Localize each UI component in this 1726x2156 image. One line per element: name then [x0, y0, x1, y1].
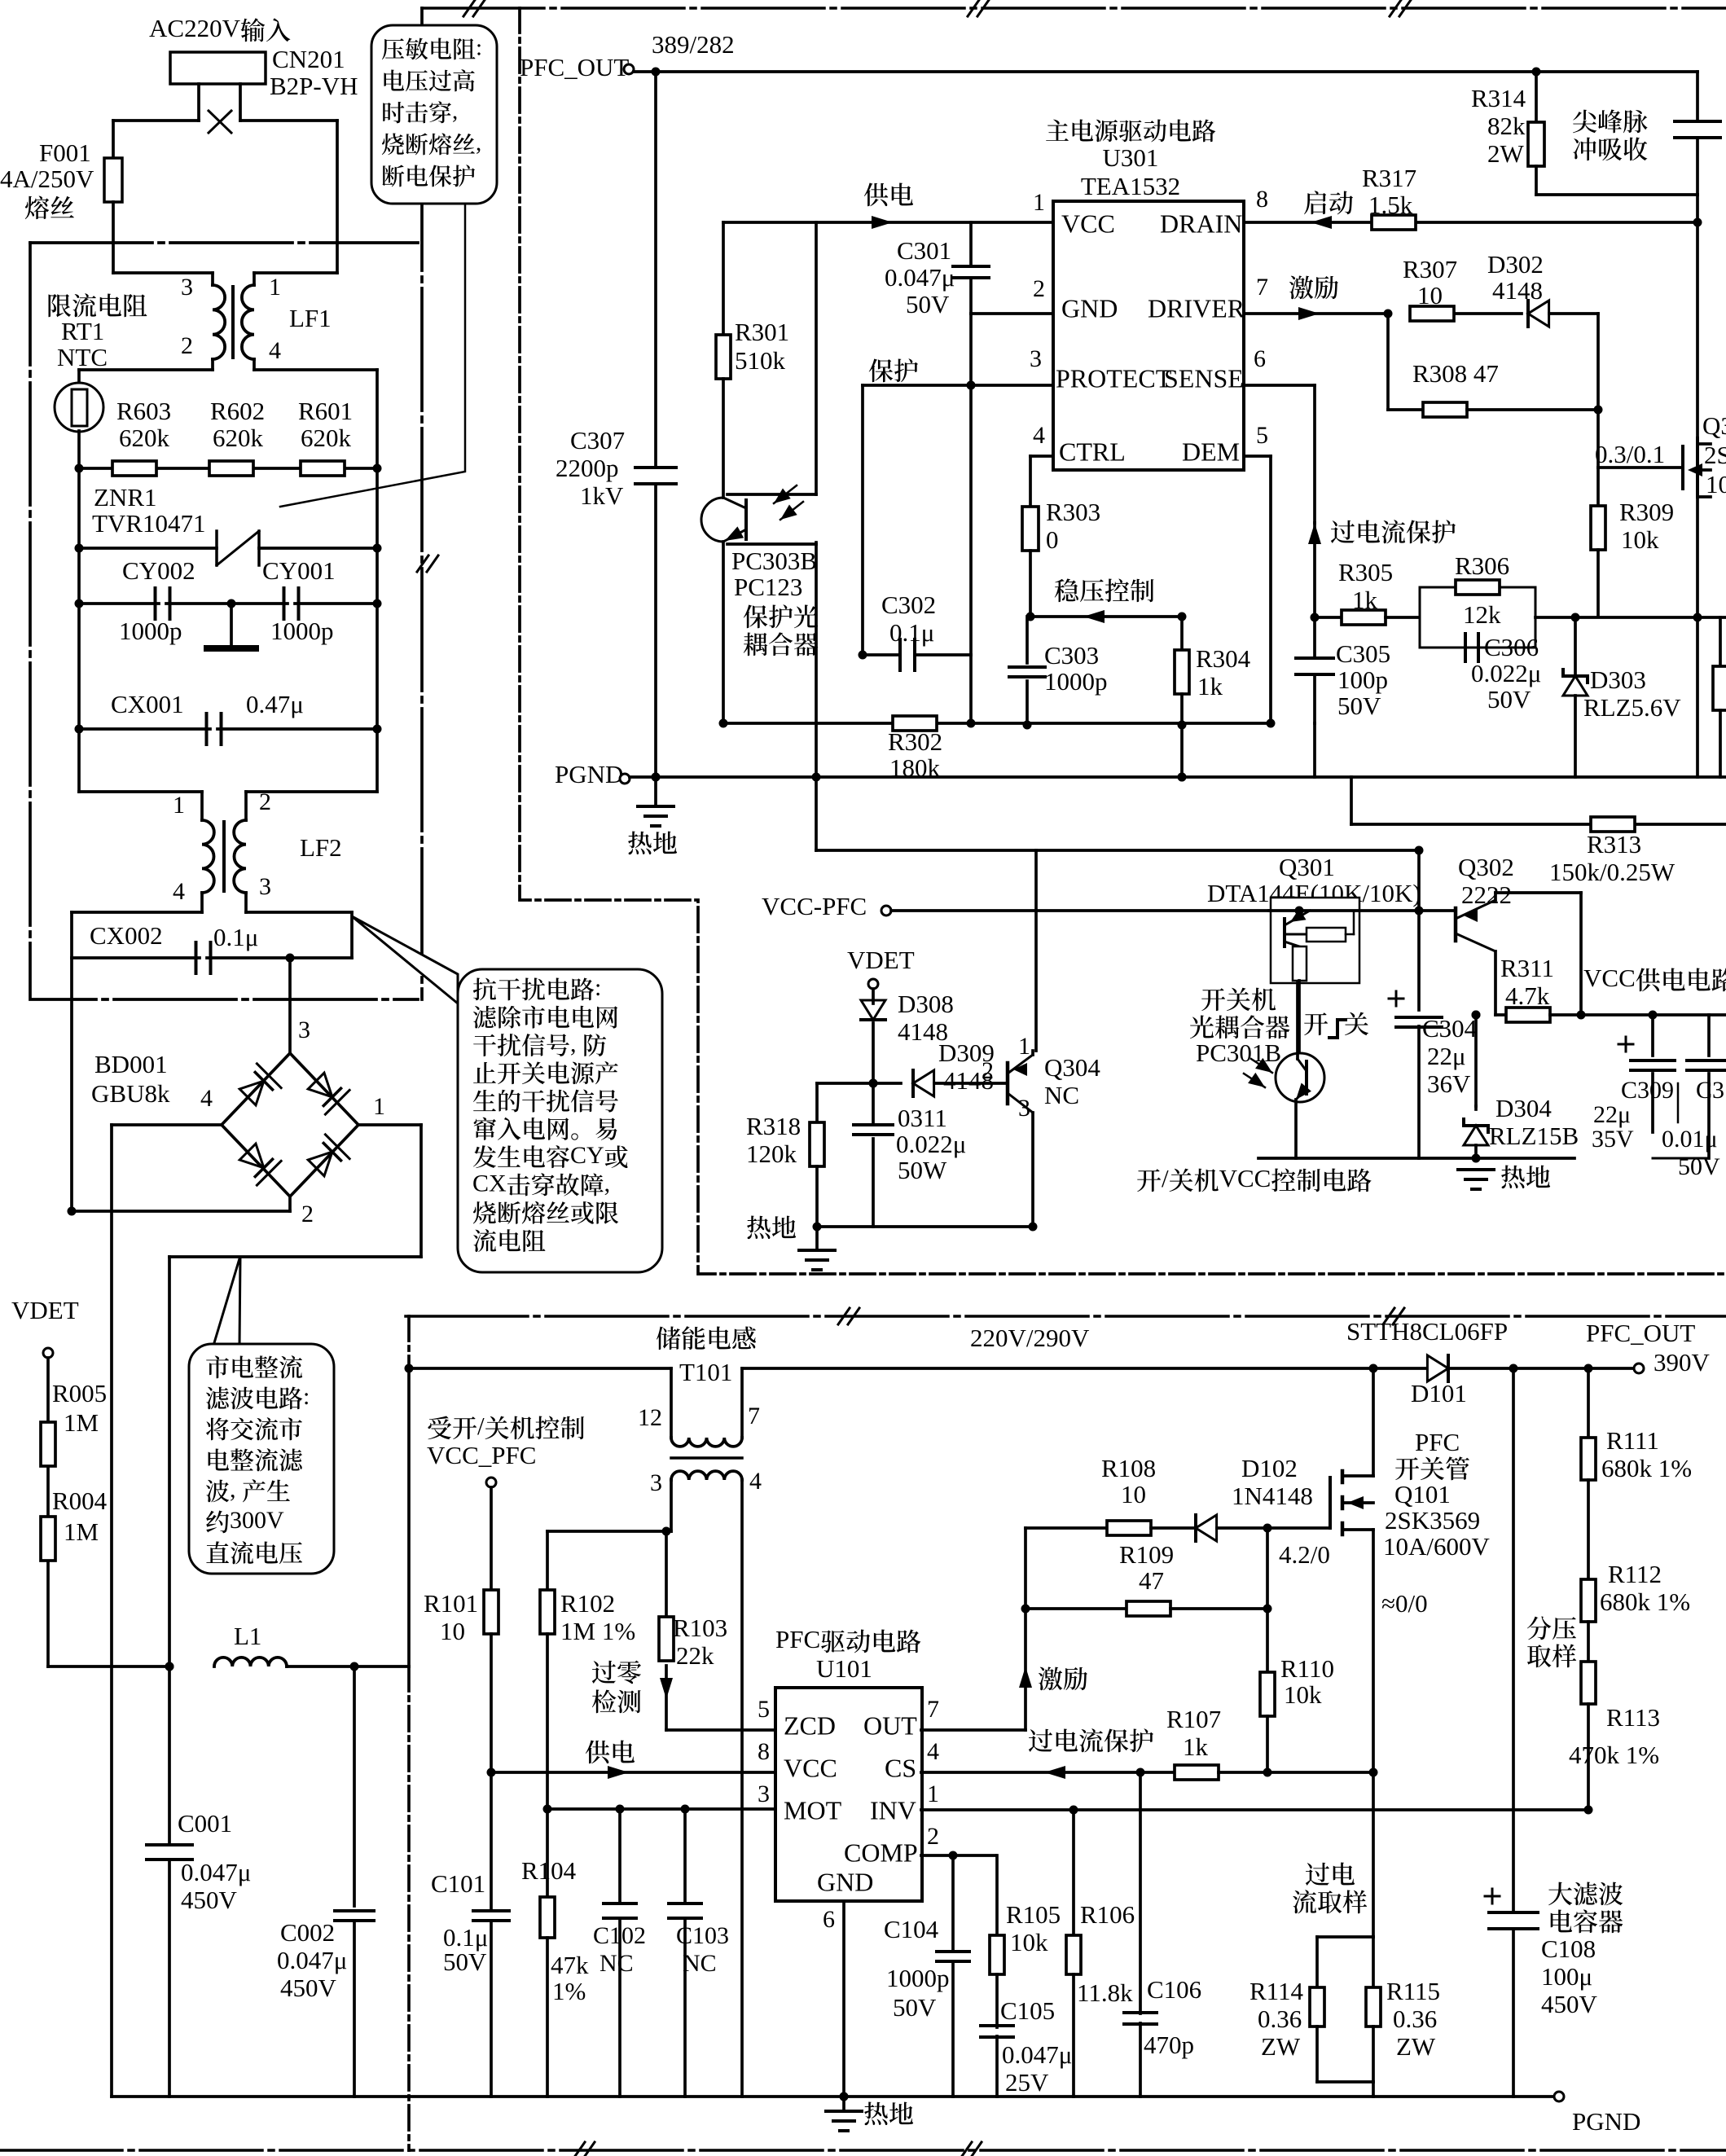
- svg-text:1000p: 1000p: [886, 1964, 950, 1992]
- svg-text:PGND: PGND: [555, 760, 623, 788]
- resistor R318 120k: [815, 1083, 819, 1122]
- resistor R305 1k: [1315, 616, 1342, 619]
- svg-text:0.36: 0.36: [1258, 2005, 1302, 2033]
- svg-text:Q304: Q304: [1044, 1053, 1100, 1082]
- svg-text:R004: R004: [52, 1486, 108, 1515]
- wire: R110 column: [1266, 1528, 1269, 1672]
- svg-text:82k: 82k: [1487, 112, 1526, 140]
- transistor Q303 MOSFET (partially cut): [1681, 446, 1684, 489]
- svg-text:PC303B: PC303B: [731, 547, 817, 575]
- wire: hot-section left border dash-dot: [520, 8, 1726, 1274]
- wire: resistor row R603-R601: [79, 467, 112, 470]
- svg-text:VCC: VCC: [1219, 1164, 1271, 1192]
- svg-text:R107: R107: [1166, 1705, 1221, 1733]
- label divider sample: [1527, 1616, 1551, 1640]
- capacitor C309 22u 35V: [1651, 1015, 1654, 1056]
- resistor R102 1M 1%: [540, 1590, 555, 1634]
- svg-text:CS: CS: [885, 1754, 916, 1783]
- svg-text:D303: D303: [1590, 665, 1646, 694]
- transformer T101: [670, 1368, 673, 1438]
- svg-text:C302: C302: [881, 591, 936, 619]
- wire: snubber bottom: [1536, 193, 1697, 196]
- wire: DRIVER pin7: [1244, 312, 1388, 315]
- resistor R105 10k: [995, 1855, 999, 1935]
- wire: bridge pin2 to L line: [288, 1197, 292, 1211]
- svg-text:C106: C106: [1147, 1975, 1201, 2004]
- diode D309 4148: [913, 1070, 934, 1096]
- label storage inductor T101: [657, 1327, 681, 1350]
- svg-text:5: 5: [758, 1696, 770, 1723]
- resistor R311 4.7k: [1495, 1013, 1506, 1017]
- svg-text:2W: 2W: [1487, 139, 1525, 168]
- resistor R601 620k: [301, 461, 345, 476]
- svg-text:10: 10: [1417, 281, 1443, 310]
- svg-text:NC: NC: [599, 1950, 634, 1977]
- terminal PGND bottom: [1554, 2092, 1564, 2101]
- svg-text:DRAIN: DRAIN: [1160, 209, 1242, 239]
- svg-text:2: 2: [927, 1823, 939, 1850]
- svg-text:R304: R304: [1196, 644, 1251, 673]
- svg-text:GND: GND: [817, 1868, 873, 1897]
- svg-text:4.2/0: 4.2/0: [1279, 1540, 1330, 1569]
- svg-text:12k: 12k: [1463, 600, 1501, 629]
- svg-text:C104: C104: [884, 1915, 939, 1943]
- resistor R304 1k: [1180, 617, 1184, 650]
- capacitor CY002 1000p: [79, 602, 159, 605]
- svg-text:≈0/0: ≈0/0: [1381, 1589, 1428, 1618]
- svg-text:5: 5: [1256, 422, 1268, 449]
- wire: VCC rail out: [1581, 1013, 1726, 1017]
- callout: anti-interference note: [458, 969, 662, 1272]
- svg-text:Q301: Q301: [1279, 853, 1335, 881]
- svg-text:GBU8k: GBU8k: [91, 1079, 170, 1108]
- wire: R306 out to zener node: [1535, 616, 1726, 619]
- wire: rectified rail to PFC: [407, 1368, 411, 1666]
- label regulation control: [1055, 578, 1078, 602]
- svg-text:1: 1: [1033, 189, 1045, 216]
- wire: top section border (dash-dot): [422, 7, 1726, 10]
- svg-text:R104: R104: [521, 1856, 577, 1885]
- svg-text:ZCD: ZCD: [784, 1711, 836, 1741]
- wire: INV pin1: [921, 1808, 1588, 1811]
- svg-text:ZW: ZW: [1396, 2032, 1436, 2061]
- capacitor C305 100p 50V: [1313, 617, 1316, 658]
- capacitor C304 22u 36V electrolytic: [1417, 911, 1421, 1010]
- resistor R103 22k: [665, 1531, 668, 1617]
- svg-text:50V: 50V: [443, 1947, 487, 1976]
- svg-text:470p: 470p: [1144, 2031, 1194, 2059]
- wire: C307/PGND column: [654, 72, 657, 468]
- svg-text:ZNR1: ZNR1: [94, 483, 157, 512]
- wire: twisted-pair mark: [209, 111, 231, 133]
- svg-text:D308: D308: [898, 990, 954, 1018]
- svg-text:510k: 510k: [735, 346, 786, 375]
- svg-text:RLZ15B: RLZ15B: [1489, 1122, 1579, 1150]
- resistor R309 10k: [1596, 468, 1600, 506]
- svg-text:0.047μ: 0.047μ: [885, 263, 955, 292]
- capacitor C307 2200p 1kV: [635, 466, 676, 469]
- label drive: [1289, 276, 1313, 300]
- svg-text:R302: R302: [888, 727, 942, 756]
- svg-text:0311: 0311: [898, 1104, 947, 1132]
- svg-text:VCC-PFC: VCC-PFC: [762, 892, 867, 920]
- svg-text:PFC_OUT: PFC_OUT: [1586, 1319, 1695, 1347]
- wire: VCC pin8: [490, 1634, 493, 1772]
- label U301 header: [1046, 120, 1069, 141]
- resistor R314 82k 2W snubber: [1535, 72, 1538, 122]
- resistor R104 47k 1%: [546, 1809, 549, 1897]
- svg-text:PC123: PC123: [734, 573, 802, 601]
- connector CN201: [170, 52, 266, 84]
- resistor R307 10: [1410, 306, 1454, 321]
- capacitor C102 NC: [618, 1809, 621, 1903]
- svg-text:1000p: 1000p: [270, 617, 334, 645]
- label overcurrent protect: [1308, 523, 1321, 544]
- svg-text:3: 3: [650, 1469, 662, 1496]
- svg-text:3: 3: [298, 1017, 310, 1043]
- resistor R301 510k: [722, 222, 725, 335]
- wire: callout tail 2: [213, 1256, 240, 1346]
- svg-text:CY: CY: [570, 1142, 604, 1169]
- svg-text:R305: R305: [1338, 558, 1393, 586]
- svg-text:4148: 4148: [1492, 276, 1543, 305]
- svg-text:R603: R603: [116, 397, 171, 425]
- svg-text:470k 1%: 470k 1%: [1569, 1741, 1659, 1769]
- node: L1 input junction: [165, 1662, 174, 1671]
- ground: VCC control ground: [1458, 1168, 1494, 1171]
- svg-text:R005: R005: [52, 1379, 107, 1407]
- svg-text:100μ: 100μ: [1541, 1962, 1592, 1991]
- resistor R004 1M: [41, 1517, 55, 1561]
- svg-text:COMP: COMP: [844, 1838, 918, 1868]
- thermistor RT1: [55, 383, 103, 432]
- wire: Q302 collector to VCC out: [1494, 893, 1497, 900]
- svg-text:INV: INV: [870, 1796, 916, 1825]
- svg-text:CX: CX: [472, 1170, 507, 1197]
- label protect: [869, 359, 894, 383]
- svg-text:8: 8: [758, 1738, 770, 1765]
- svg-text:C307: C307: [570, 426, 625, 454]
- label on/off optocoupler: [1201, 988, 1225, 1011]
- svg-text:ZW: ZW: [1261, 2032, 1301, 2061]
- resistor R306 12k with C306: [1420, 587, 1535, 648]
- capacitor C002 0.047u 450V: [335, 1909, 374, 1912]
- svg-text:1k: 1k: [1352, 586, 1378, 614]
- wire: D308 to D309: [817, 1082, 873, 1085]
- wire: section border between VCC control and PFC (dash-dot): [406, 1315, 1726, 1318]
- svg-text:VDET: VDET: [11, 1296, 79, 1324]
- svg-text:220V/290V: 220V/290V: [970, 1324, 1090, 1352]
- label on/off VCC control circuit: [1137, 1169, 1161, 1192]
- svg-text:C105: C105: [1000, 1996, 1055, 2025]
- wire: PROTECT pin3: [863, 384, 1053, 387]
- svg-text:C102: C102: [593, 1922, 646, 1949]
- svg-text:1M: 1M: [64, 1517, 99, 1546]
- wire: regulation wire: [1030, 615, 1182, 618]
- resistor R109 47: [1127, 1601, 1170, 1616]
- svg-text:,: ,: [476, 130, 481, 156]
- wire: Q304 collector drop: [1034, 850, 1038, 1051]
- svg-text::: :: [303, 1383, 310, 1410]
- svg-text:R114: R114: [1249, 1977, 1304, 2005]
- capacitor C101 0.1u 50V: [490, 1772, 493, 1911]
- svg-text:120k: 120k: [746, 1139, 797, 1168]
- ground: U101 hot ground: [842, 1901, 845, 2097]
- ground: hot ground at PGND: [654, 777, 657, 806]
- wire: opto collector rail: [815, 222, 818, 494]
- svg-text:R317: R317: [1362, 164, 1416, 192]
- svg-text:4: 4: [173, 878, 185, 905]
- svg-text:4: 4: [749, 1468, 762, 1495]
- svg-text:2SK3569: 2SK3569: [1385, 1506, 1480, 1535]
- svg-text:50V: 50V: [893, 1993, 937, 2022]
- svg-text:0.01μ: 0.01μ: [1662, 1126, 1718, 1153]
- svg-text:10k: 10k: [1621, 525, 1659, 554]
- svg-text::: :: [476, 34, 482, 60]
- svg-text:25V: 25V: [1005, 2068, 1049, 2097]
- wire: VCC control ground rail: [1258, 1157, 1574, 1160]
- label drive arrow: [1019, 1666, 1032, 1688]
- svg-text:6: 6: [823, 1906, 835, 1933]
- svg-text:CY002: CY002: [122, 556, 195, 585]
- label zero-cross detect: [592, 1661, 616, 1684]
- svg-text:OUT: OUT: [863, 1711, 917, 1741]
- wire: gate feed: [1596, 314, 1600, 468]
- svg-text:0.1μ: 0.1μ: [213, 923, 258, 951]
- svg-text:50V: 50V: [1678, 1153, 1720, 1180]
- svg-text:R113: R113: [1606, 1703, 1660, 1732]
- wire: LF2 pin4 loop: [200, 893, 204, 912]
- varistor ZNR1: [79, 547, 217, 550]
- svg-text:DRIVER: DRIVER: [1148, 294, 1245, 323]
- svg-text:R109: R109: [1119, 1540, 1174, 1569]
- svg-text:VDET: VDET: [847, 946, 915, 974]
- transistor Q301 internals: [1283, 919, 1286, 946]
- label on/off waveform: [1304, 1012, 1328, 1035]
- zener diode D303 RLZ5.6V: [1574, 617, 1577, 676]
- resistor R603 620k: [112, 461, 156, 476]
- svg-text:3: 3: [259, 873, 271, 900]
- capacitor 0311 0.022u 50W: [872, 1083, 875, 1122]
- svg-text:2: 2: [982, 1057, 994, 1084]
- svg-text:22k: 22k: [676, 1641, 714, 1670]
- svg-text:10A/600V: 10A/600V: [1383, 1532, 1491, 1561]
- svg-text:VCC: VCC: [1061, 209, 1115, 239]
- resistor R114/R115 0.36 sense pair: [1317, 1935, 1373, 1939]
- capacitor C306 0.022u 50V: [1464, 634, 1467, 661]
- wire: R313 line: [1350, 777, 1353, 824]
- resistor R108 10: [1107, 1521, 1151, 1535]
- svg-text:390V: 390V: [1654, 1348, 1711, 1377]
- label startup: [1304, 191, 1326, 214]
- capacitor C001 0.047u 450V: [168, 1666, 171, 1845]
- svg-text:50V: 50V: [1487, 685, 1531, 714]
- svg-text:,: ,: [604, 1170, 611, 1197]
- svg-text:C108: C108: [1541, 1934, 1596, 1963]
- capacitor CX001 0.47u: [79, 727, 210, 731]
- svg-text:,: ,: [230, 1476, 236, 1503]
- wire: AC line left to fuse: [113, 119, 199, 122]
- capacitor snubber cap: [1696, 72, 1699, 121]
- wire: PFC section left border dash-dot: [407, 1316, 411, 1368]
- wire: RT1 to resistor row: [77, 431, 81, 468]
- svg-text:NTC: NTC: [57, 343, 108, 371]
- label VCC_PFC control: [428, 1416, 451, 1440]
- wire: T101 pin3 aux: [547, 1530, 671, 1533]
- svg-text:6: 6: [1254, 345, 1266, 372]
- label overcurrent protect CS: [1029, 1729, 1052, 1752]
- svg-text:LF1: LF1: [289, 304, 332, 332]
- svg-text:450V: 450V: [181, 1886, 238, 1914]
- wire: VDET divider: [46, 1358, 50, 1422]
- wire: right EMI rail: [376, 468, 379, 792]
- svg-text:Q101: Q101: [1394, 1480, 1451, 1508]
- svg-text:PFC_OUT: PFC_OUT: [520, 53, 629, 81]
- svg-text:R308 47: R308 47: [1412, 359, 1499, 388]
- resistor R106 11.8k: [1072, 1810, 1075, 1935]
- svg-text:7: 7: [1256, 274, 1268, 301]
- svg-text:C103: C103: [676, 1922, 729, 1949]
- capacitor C301 0.047u 50V: [969, 222, 973, 264]
- wire: PFC_OUT 389V rail: [634, 70, 1536, 73]
- wire: LF1 pin2 to RT1: [211, 359, 214, 370]
- svg-text:U101: U101: [816, 1654, 872, 1683]
- svg-text:C309: C309: [1621, 1077, 1674, 1104]
- capacitor CX002 0.1u: [72, 956, 200, 959]
- svg-text:RT1: RT1: [61, 317, 104, 345]
- svg-text:VCC: VCC: [784, 1754, 837, 1783]
- svg-text:2: 2: [259, 788, 271, 815]
- svg-text:R314: R314: [1471, 84, 1526, 112]
- svg-text:680k 1%: 680k 1%: [1600, 1587, 1690, 1616]
- svg-text:PFC: PFC: [1415, 1428, 1460, 1456]
- svg-text:R301: R301: [735, 318, 789, 346]
- svg-text:0.1μ: 0.1μ: [889, 618, 934, 647]
- svg-text:0.047μ: 0.047μ: [1002, 2040, 1072, 2069]
- wire: callout pointer to ZNR1: [280, 204, 465, 507]
- svg-text:150k/0.25W: 150k/0.25W: [1549, 858, 1675, 886]
- svg-text:10: 10: [440, 1617, 465, 1645]
- wire: COMP pin2: [921, 1854, 995, 1857]
- svg-text:1: 1: [269, 274, 281, 301]
- svg-text:PGND: PGND: [1572, 2107, 1640, 2136]
- inductor LF2 common-mode choke: [202, 820, 214, 893]
- wire: Q302 emitter: [1494, 951, 1497, 1015]
- svg-text:STTH8CL06FP: STTH8CL06FP: [1346, 1317, 1508, 1346]
- svg-text:4A/250V: 4A/250V: [0, 165, 94, 193]
- svg-text:7: 7: [748, 1403, 760, 1429]
- svg-text:0.022μ: 0.022μ: [1471, 659, 1541, 687]
- svg-text:CY001: CY001: [262, 556, 336, 585]
- svg-text:1M: 1M: [64, 1408, 99, 1437]
- svg-text:4: 4: [269, 337, 281, 364]
- svg-text:35V: 35V: [1592, 1126, 1634, 1153]
- wire: drain rail down to MOSFET: [1696, 195, 1699, 444]
- label supply arrow: [586, 1741, 610, 1764]
- svg-text:R101: R101: [424, 1589, 478, 1618]
- diode D302 4148: [1528, 301, 1549, 327]
- svg-text:R112: R112: [1608, 1560, 1662, 1588]
- svg-text:2200p: 2200p: [556, 454, 619, 482]
- bridge rectifier BD001: [222, 1053, 358, 1197]
- svg-text:R115: R115: [1386, 1977, 1440, 2005]
- svg-text:R318: R318: [746, 1112, 801, 1140]
- wire: SENSE pin6: [1244, 384, 1315, 387]
- IC U301 TEA1532: [1053, 201, 1244, 470]
- wire: PFC main line: [409, 1367, 671, 1370]
- svg-text:0.47μ: 0.47μ: [246, 690, 304, 718]
- svg-text:R110: R110: [1280, 1654, 1334, 1683]
- divider resistors R111 R112 R113: [1587, 1368, 1590, 1438]
- wire: OUT pin7: [921, 1728, 1025, 1732]
- svg-text:2: 2: [1033, 275, 1045, 302]
- resistor R005 1M: [41, 1422, 55, 1466]
- svg-text:R103: R103: [673, 1614, 727, 1642]
- wire: opto outputs: [722, 379, 725, 498]
- fuse F001: [104, 158, 122, 202]
- svg-text:RLZ5.6V: RLZ5.6V: [1583, 693, 1681, 722]
- wire: AC line right: [240, 119, 337, 122]
- resistor R317 1.5k: [1372, 215, 1416, 230]
- svg-text:C101: C101: [431, 1869, 485, 1898]
- svg-text:7: 7: [927, 1696, 939, 1723]
- svg-text:R311: R311: [1500, 954, 1554, 982]
- wire: DEM pin5: [1244, 454, 1271, 458]
- ground: CY midpoint earth: [230, 604, 233, 648]
- node: D308 junction: [869, 1079, 878, 1088]
- transistor Q301 digital PNP in box: [1271, 898, 1359, 983]
- svg-text:D302: D302: [1487, 250, 1544, 279]
- svg-text:R601: R601: [298, 397, 353, 425]
- resistor R110 10k: [1260, 1672, 1275, 1716]
- svg-text:36V: 36V: [1427, 1069, 1471, 1098]
- svg-text:R106: R106: [1080, 1900, 1135, 1929]
- svg-text:LF2: LF2: [300, 833, 342, 862]
- capacitor C108 100u 450V bulk: [1512, 1368, 1515, 1912]
- svg-text:620k: 620k: [213, 424, 264, 452]
- svg-text:12: 12: [638, 1404, 662, 1431]
- svg-text:C304: C304: [1422, 1014, 1478, 1043]
- svg-text:Q3: Q3: [1702, 411, 1726, 440]
- wire: bridge pin4 return: [112, 1123, 222, 1126]
- diode D102: [1151, 1526, 1196, 1530]
- svg-text:PROTECT: PROTECT: [1056, 364, 1172, 393]
- svg-text:1: 1: [173, 792, 185, 819]
- svg-text:4: 4: [927, 1738, 939, 1765]
- svg-text:/: /: [477, 1412, 485, 1440]
- svg-text:B2P-VH: B2P-VH: [270, 72, 358, 100]
- svg-text:R309: R309: [1619, 498, 1674, 526]
- wire: hot ground rail (bottom): [112, 2095, 1559, 2098]
- svg-text:R306: R306: [1455, 551, 1509, 580]
- wire: rails to LF2: [79, 790, 202, 793]
- svg-text:22μ: 22μ: [1593, 1101, 1631, 1128]
- resistor R303 0: [1022, 507, 1039, 551]
- svg-text:100p: 100p: [1337, 665, 1388, 694]
- svg-text:4: 4: [1033, 422, 1045, 449]
- label supply: [864, 183, 889, 207]
- resistor R107 1k: [1175, 1765, 1219, 1780]
- svg-text:389/282: 389/282: [652, 30, 735, 59]
- svg-text:11.8k: 11.8k: [1077, 1978, 1133, 2007]
- wire: VCC-PFC line: [891, 909, 1269, 912]
- svg-text:1N4148: 1N4148: [1232, 1482, 1313, 1510]
- capacitor C104 1000p 50V: [951, 1855, 955, 1952]
- svg-text:C310: C310: [1696, 1077, 1726, 1104]
- zener diode D304 RLZ15B: [1474, 1106, 1478, 1109]
- optocoupler PC301B: [1276, 1053, 1324, 1102]
- svg-text:0.047μ: 0.047μ: [277, 1946, 347, 1974]
